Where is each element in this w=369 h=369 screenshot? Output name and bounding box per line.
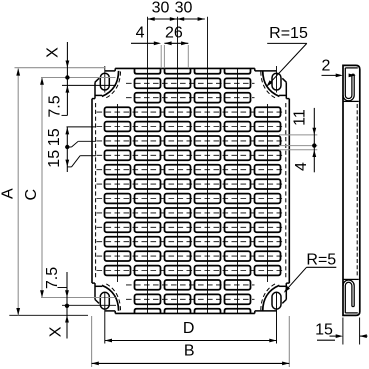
bottom-right corner edge (254, 311, 256, 314)
top-left corner arc (102, 71, 119, 97)
extension line D right (276, 292, 278, 344)
svg-text:4: 4 (293, 162, 310, 171)
dimension line D (105, 340, 277, 342)
side view top hem (345, 68, 352, 99)
bottom-left bend arc dashed (105, 283, 121, 310)
bottom-right corner arc (263, 285, 280, 311)
svg-text:15: 15 (46, 150, 63, 168)
extension line TL slot lower center (62, 84, 116, 86)
extension jog row7 (67, 166, 71, 168)
dimension line 7.5 bottom (66, 272, 68, 339)
dimension line C (41, 78, 43, 298)
svg-text:C: C (23, 189, 40, 201)
plate right edge (288, 99, 290, 284)
extension line slot gap left (gray) (160, 45, 162, 68)
column centerline 5 (237, 68, 239, 313)
extension jog row6 (67, 146, 71, 148)
side view bottom hem (345, 282, 352, 313)
extension line slot right edge (gray) (187, 45, 189, 68)
top-left corner edge (105, 70, 115, 72)
extension line plate top (gray) (15, 67, 106, 69)
bottom-left corner edge (105, 310, 115, 312)
svg-text:7.5: 7.5 (46, 95, 63, 117)
extension line row5 center (67, 126, 97, 128)
dimension line 26 (164, 42, 188, 44)
extension line slot gap right (gray) (163, 45, 165, 68)
column centerline 2 with extension (147, 17, 149, 314)
column centerline 3 with extension (177, 17, 179, 314)
svg-text:30: 30 (175, 0, 193, 17)
dimension line 15 side (330, 335, 337, 337)
dimension line X top (66, 42, 68, 115)
R=15 underline (267, 42, 307, 44)
dimension line 2 (322, 74, 341, 76)
slot centerline vertical TR (276, 66, 278, 93)
row centerlines dashed (126, 82, 255, 84)
svg-text:11: 11 (291, 109, 308, 126)
dimension line 11-4 (313, 108, 315, 172)
top-right corner arc (263, 71, 280, 97)
column centerline 6 (267, 104, 269, 282)
extension line TL slot upper center (gray) (41, 77, 116, 79)
label 7.5 bottom leader stub (58, 287, 68, 289)
dimension line 30-30 (148, 18, 205, 20)
perforation slot grid (105, 107, 131, 117)
fixing slot bottom-right (272, 292, 281, 309)
dimension line A (17, 68, 19, 315)
left bend line dashed (95, 103, 97, 279)
svg-text:R=15: R=15 (269, 25, 308, 42)
svg-text:15: 15 (46, 128, 63, 146)
plate top edge (115, 67, 255, 69)
extension line next slot top right (gray) (279, 149, 317, 151)
bottom-left corner stub (94, 283, 96, 299)
plate left edge (91, 99, 93, 284)
fixing slot bottom-left (100, 292, 109, 309)
slot centerline vertical TL (104, 66, 106, 93)
svg-text:4: 4 (136, 25, 145, 42)
svg-text:30: 30 (152, 0, 170, 17)
svg-text:X: X (45, 47, 62, 58)
top-right bend arc dashed (261, 72, 277, 99)
extension line slot top edge right (gray) (279, 134, 317, 136)
side view outline (343, 65, 360, 315)
R=15 leader (268, 43, 307, 85)
clipped top row slots (135, 68, 161, 73)
dimension line 15-15 (66, 127, 68, 172)
svg-text:2: 2 (322, 58, 331, 75)
extension line D left (104, 292, 106, 344)
extension line slot bottom edge right (gray) (279, 145, 317, 147)
top-right corner edge (254, 68, 256, 71)
extension lines 15 side (342, 318, 344, 345)
extension line BL slot upper center (gray) (41, 297, 116, 299)
svg-text:B: B (184, 343, 195, 360)
R=5 leader (285, 267, 307, 291)
label 7.5 top leader stub (62, 114, 68, 116)
svg-text:7.5: 7.5 (44, 267, 61, 289)
top-right corner stub (285, 82, 287, 98)
clipped bottom row slots (135, 309, 161, 314)
svg-text:26: 26 (165, 25, 183, 42)
svg-text:15: 15 (315, 322, 333, 339)
extension line B left (gray) (91, 316, 93, 367)
fixing slot top-left (100, 73, 109, 90)
plate bottom edge (115, 312, 255, 314)
column centerline 1 (117, 104, 119, 282)
extension line B right (gray) (288, 316, 290, 367)
top-left bend arc dashed (105, 72, 121, 99)
bottom-left corner arc (102, 285, 119, 311)
svg-text:R=5: R=5 (306, 251, 336, 268)
dimension line 4 (131, 42, 155, 44)
extension line BL slot lower center (62, 304, 116, 306)
15 side underline (317, 339, 335, 341)
bottom-right corner stub (285, 283, 287, 299)
right bend line dashed (285, 103, 287, 279)
bottom-right bend arc dashed (261, 283, 277, 310)
top-left corner stub (94, 82, 96, 98)
dimension line B (92, 362, 290, 364)
column centerline 4 with extension (207, 17, 209, 314)
R=5 underline (307, 266, 337, 268)
svg-text:D: D (183, 320, 195, 337)
extension line plate bottom (9, 314, 88, 316)
fixing slot top-right (272, 73, 281, 90)
svg-text:A: A (0, 188, 16, 199)
side view hidden perforations dashed (356, 104, 358, 277)
svg-text:X: X (48, 326, 65, 337)
